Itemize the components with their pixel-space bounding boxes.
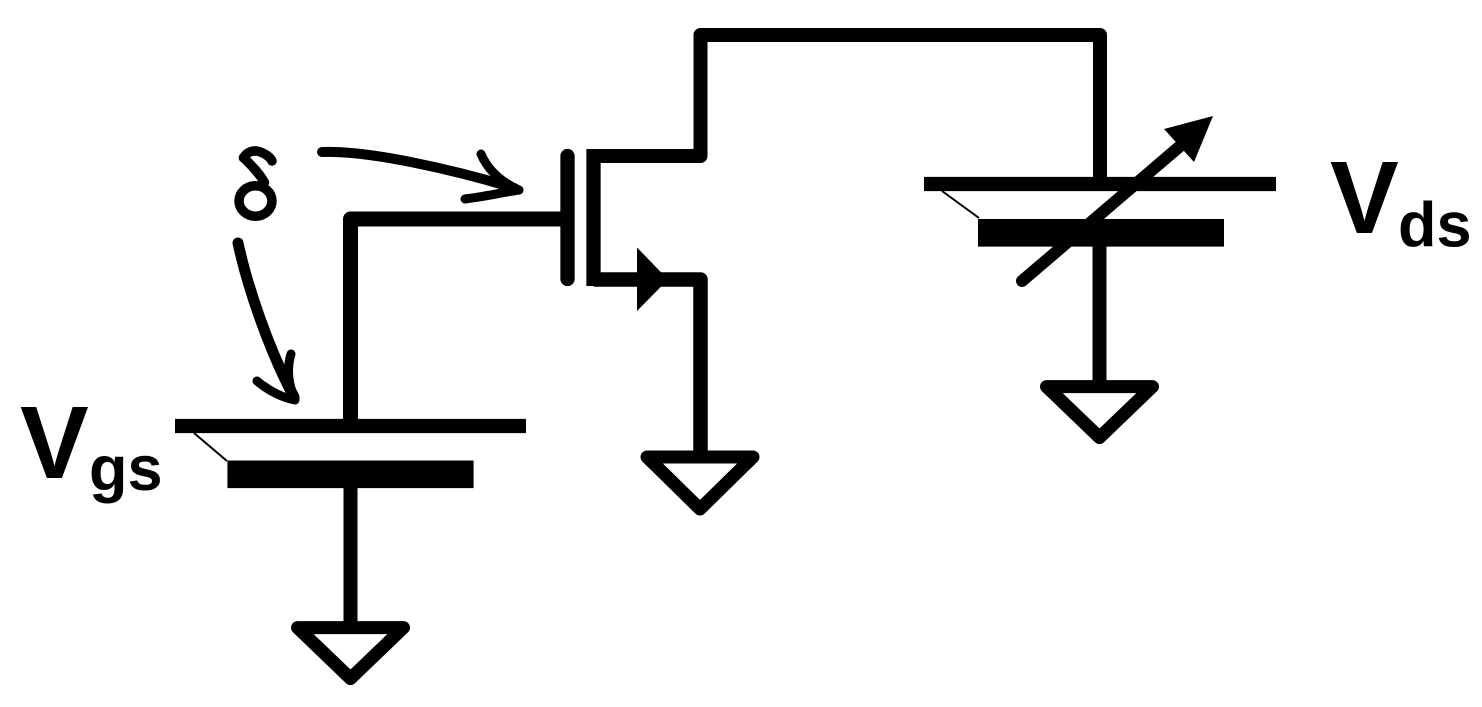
battery V_ds variable arrow head	[1164, 116, 1213, 162]
wire Vds to ground	[1093, 246, 1107, 387]
svg-text:ds: ds	[1398, 191, 1472, 261]
ground (source)	[647, 457, 753, 509]
wire drain lead to top rail to Vds (node D)	[594, 35, 1101, 184]
battery V_ds variable arrow shaft	[1022, 141, 1186, 281]
ground (Vgs)	[298, 628, 404, 679]
battery V_gs top plate	[175, 419, 526, 433]
battery V_ds bottom plate	[978, 219, 1224, 247]
ground (Vds)	[1047, 387, 1153, 438]
battery V_gs bottom plate	[227, 460, 473, 488]
battery V_gs leader line	[194, 433, 227, 461]
label delta	[244, 151, 273, 161]
transistor Q1 channel bar	[586, 149, 600, 286]
wire Vgs to ground	[344, 488, 358, 628]
transistor Q1 gate bar	[560, 156, 574, 279]
battery V_ds leader line	[942, 191, 979, 218]
annotation arrow delta-to-Vgs head	[257, 354, 295, 400]
annotation arrow delta-to-Vgs shaft	[238, 243, 294, 397]
transistor Q1 source arrow	[637, 248, 668, 312]
svg-text:gs: gs	[89, 434, 163, 504]
svg-text:V: V	[1330, 140, 1399, 255]
battery V_ds top plate	[924, 177, 1276, 191]
wire gate-to-Vgs (node G)	[351, 219, 565, 427]
annotation arrow delta-to-gate head	[465, 154, 519, 199]
svg-text:V: V	[20, 385, 89, 500]
wire source lead down to ground (node S)	[594, 280, 701, 458]
annotation arrow delta-to-gate shaft	[322, 152, 514, 188]
